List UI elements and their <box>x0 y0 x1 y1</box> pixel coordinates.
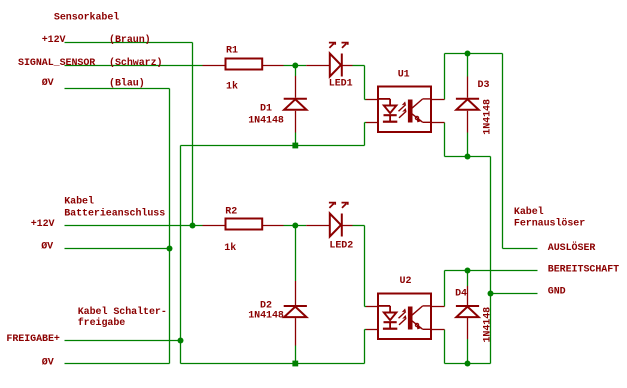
svg-text:Kabel: Kabel <box>64 196 94 208</box>
svg-text:Batterieanschluss: Batterieanschluss <box>64 207 165 219</box>
svg-text:R1: R1 <box>226 46 238 57</box>
svg-text:U2: U2 <box>400 276 412 287</box>
svg-text:1N4148: 1N4148 <box>248 115 284 126</box>
svg-text:D1: D1 <box>260 103 272 114</box>
svg-text:AUSLÖSER: AUSLÖSER <box>548 241 596 254</box>
svg-text:1k: 1k <box>226 81 238 93</box>
svg-text:SIGNAL_SENSOR: SIGNAL_SENSOR <box>18 58 95 69</box>
svg-text:1N4148: 1N4148 <box>248 311 284 322</box>
svg-text:freigabe: freigabe <box>78 317 126 329</box>
svg-text:(Blau): (Blau) <box>109 77 145 89</box>
svg-text:LED1: LED1 <box>329 79 353 90</box>
svg-text:1N4148: 1N4148 <box>482 307 493 343</box>
svg-text:1N4148: 1N4148 <box>483 99 494 135</box>
svg-text:LED2: LED2 <box>329 240 353 251</box>
svg-text:(Braun): (Braun) <box>109 34 151 46</box>
svg-text:ØV: ØV <box>42 356 54 368</box>
svg-text:D3: D3 <box>478 80 490 91</box>
svg-text:Kabel: Kabel <box>514 206 544 218</box>
svg-text:U1: U1 <box>398 70 410 81</box>
svg-text:+12V: +12V <box>42 35 66 46</box>
svg-text:ØV: ØV <box>42 77 54 89</box>
svg-text:D4: D4 <box>455 288 467 299</box>
svg-text:+12V: +12V <box>31 219 55 230</box>
svg-text:(Schwarz): (Schwarz) <box>109 57 162 69</box>
svg-text:ØV: ØV <box>41 240 53 252</box>
svg-text:FREIGABE+: FREIGABE+ <box>6 334 60 345</box>
svg-text:1k: 1k <box>224 242 236 254</box>
svg-text:Fernauslöser: Fernauslöser <box>514 217 585 229</box>
svg-text:GND: GND <box>548 287 566 298</box>
svg-text:Kabel Schalter-: Kabel Schalter- <box>78 306 167 318</box>
svg-text:BEREITSCHAFT: BEREITSCHAFT <box>548 264 619 275</box>
svg-text:Sensorkabel: Sensorkabel <box>54 11 119 23</box>
svg-text:R2: R2 <box>225 207 237 218</box>
